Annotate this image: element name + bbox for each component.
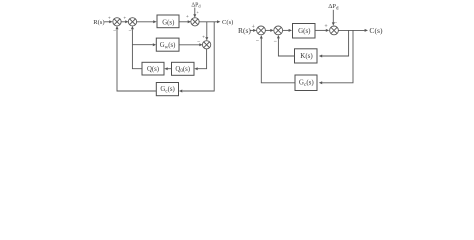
svg-text:+: + (186, 14, 189, 20)
wire Gw(s) to S4 (left) (179, 44, 200, 46)
arrowhead into S1 (right) (253, 29, 256, 32)
wire S4 down to Q0(s) (left) (198, 49, 207, 69)
arrowhead into S1 (left) (109, 20, 112, 23)
wire Gc(s) up to S1 (left) (117, 29, 156, 91)
svg-text:−: − (128, 28, 131, 34)
wire S3 to C(s) output (right) (339, 29, 365, 31)
block G(s) (left) (157, 15, 179, 28)
wire G(s) to S3 (left) (179, 21, 188, 23)
arrowhead Gc up into S1 (left) (116, 26, 119, 29)
svg-text:G(s): G(s) (162, 19, 174, 26)
wire takeoff node to S4 (left) (206, 22, 208, 37)
svg-text:R(s): R(s) (93, 19, 104, 26)
summing junction S3 (left) (191, 18, 199, 26)
arrowhead dPd into S3 (left) (193, 14, 196, 17)
svg-text:−: − (334, 20, 337, 26)
svg-text:+: + (196, 9, 199, 14)
arrowhead into S3 (right) (326, 29, 329, 32)
svg-text:−: − (197, 39, 200, 45)
arrowhead into Q0(s) (left) (194, 67, 197, 70)
arrowhead into Q(s) (left) (164, 67, 167, 70)
svg-text:R(s): R(s) (238, 26, 251, 35)
svg-text:−: − (274, 39, 278, 45)
wire G(s) to S3 (right) (315, 29, 326, 31)
svg-text:Gc(s): Gc(s) (299, 79, 314, 88)
arrowhead C(s) (left) (217, 20, 220, 23)
wire R(s) input (right) (250, 29, 254, 31)
wire disturbance dPd arrow (left) (194, 8, 196, 15)
arrowhead C(s) (right) (365, 29, 368, 32)
arrowhead into Gc(s) (left) (179, 90, 182, 93)
arrowhead into S2 (right) (270, 29, 273, 32)
svg-text:C(s): C(s) (222, 19, 233, 26)
summing junction S3 (right) (330, 26, 339, 35)
wire S1 to S2 (left) (121, 21, 126, 23)
svg-text:+: + (123, 16, 126, 22)
wire inner takeoff to K(s) (right) (322, 30, 349, 56)
svg-text:G(s): G(s) (298, 27, 311, 35)
wire Gc(s) up to S1 (right) (261, 38, 295, 83)
summing junction S4 (left) (202, 41, 210, 49)
svg-text:−: − (113, 28, 116, 34)
arrowhead Gw into S4 (left) (199, 43, 202, 46)
summing junction S2 (left) (128, 18, 136, 26)
wire R(s) input (left) (104, 21, 110, 23)
wire K(s) up to S2 (right) (278, 38, 294, 56)
svg-text:+: + (252, 24, 255, 30)
block Gw(s) (left) (156, 38, 179, 51)
arrowhead into Gw(s) (left) (153, 43, 156, 46)
block G(s) (right) (293, 24, 316, 39)
block Q(s) (left) (142, 62, 164, 75)
wire S2 to G(s) (left) (136, 21, 153, 23)
arrowhead into Gc(s) (right) (319, 81, 322, 84)
svg-text:Q(s): Q(s) (147, 66, 159, 73)
wire disturbance dPd arrow (right) (332, 10, 334, 23)
wire S3 to C(s) output (left) (199, 21, 217, 23)
block Gc(s) (right) (295, 75, 317, 91)
arrowhead into G(s) (right) (289, 29, 292, 32)
arrowhead into K(s) (right) (319, 55, 322, 58)
svg-text:+: + (108, 16, 111, 22)
summing junction S2 (right) (274, 26, 283, 35)
arrowhead Gc up into S1 (right) (260, 35, 263, 38)
arrowhead Q up into S2 (left) (131, 26, 134, 29)
wire Q(s) up to S2 (left) (132, 29, 142, 68)
arrowhead into G(s) (left) (153, 20, 156, 23)
arrowhead K up into S2 (right) (277, 35, 280, 38)
wire Q0(s) to Q(s) (left) (168, 68, 172, 70)
block K(s) (right) (295, 49, 318, 63)
wire S1 to S2 (right) (266, 29, 271, 31)
wire S2 to G(s) (right) (283, 29, 289, 31)
svg-text:K(s): K(s) (300, 52, 313, 60)
summing junction S1 (right) (257, 26, 266, 35)
svg-text:+: + (324, 24, 327, 30)
wire outer takeoff to Gc(s) (left) (182, 22, 214, 91)
arrowhead into S4 top (left) (205, 37, 208, 40)
arrowhead into S3 (left) (188, 20, 191, 23)
wire tap to Gw(s) input (left) (132, 44, 153, 46)
svg-text:ΔPd: ΔPd (191, 2, 201, 8)
block Gc(s) (left) (156, 83, 178, 96)
summing junction S1 (left) (113, 18, 121, 26)
svg-text:+: + (202, 35, 205, 41)
arrowhead into S2 (left) (125, 20, 128, 23)
svg-text:−: − (256, 38, 260, 44)
wire outer takeoff to Gc(s) (right) (322, 30, 353, 82)
arrowhead dPd into S3 (right) (332, 22, 335, 25)
svg-text:C(s): C(s) (369, 26, 383, 35)
block Q0(s) (left) (172, 62, 195, 75)
